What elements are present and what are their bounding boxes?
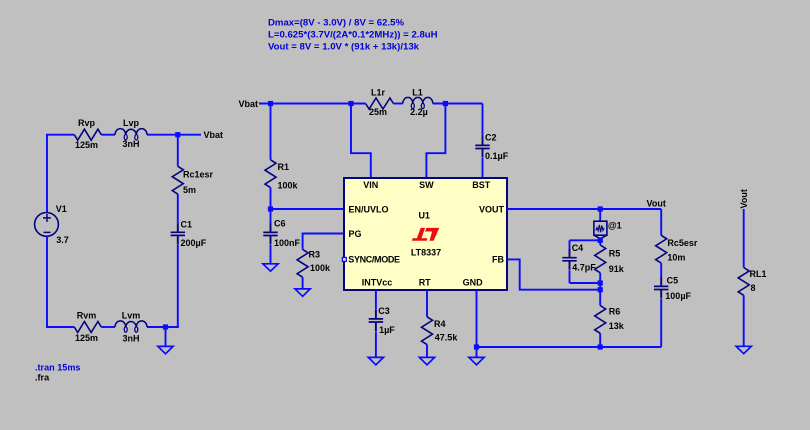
svg-text:V1: V1 (56, 204, 67, 214)
wire: PG net (303, 234, 344, 250)
wire: bottom return net (477, 346, 662, 348)
ground (left source return) (158, 327, 173, 354)
svg-text:Vout: Vout (647, 199, 666, 209)
svg-text:200µF: 200µF (181, 238, 207, 248)
wire: Vbat rail (259, 103, 483, 105)
junction: bottom rail / ground (163, 324, 168, 329)
svg-text:125m: 125m (75, 140, 98, 150)
resistor Rvp (74, 118, 101, 150)
resistor RL1 8 (738, 268, 766, 347)
resistor L1r 25m (inductor series R) (366, 87, 394, 117)
node Vout (flag) (647, 199, 666, 209)
svg-text:L1r: L1r (371, 87, 386, 97)
inductor L1 2.2u (403, 87, 433, 117)
svg-text:Lvp: Lvp (123, 118, 140, 128)
svg-text:100k: 100k (310, 263, 331, 273)
svg-text:C5: C5 (667, 276, 679, 286)
svg-text:LT8337: LT8337 (411, 247, 441, 257)
op-amp/IC U1 LT8337 body (344, 178, 507, 290)
svg-text:125m: 125m (75, 333, 98, 343)
resistor R4 47.5k (RT) (422, 290, 459, 357)
wire: V1 bottom to lower rail (46, 236, 48, 327)
svg-text:SYNC/MODE: SYNC/MODE (348, 255, 400, 265)
pin SYNC/MODE open terminal (342, 258, 346, 262)
junction: FB tee (598, 287, 603, 292)
svg-text:25m: 25m (369, 107, 387, 117)
wire: EN/UVLO net (271, 208, 345, 210)
svg-text:SW: SW (419, 180, 434, 190)
svg-text:Vbat: Vbat (204, 130, 224, 140)
svg-text:U1: U1 (418, 211, 430, 221)
svg-text:R4: R4 (434, 319, 446, 329)
svg-text:Rc1esr: Rc1esr (183, 170, 214, 180)
wire: left bottom rail (46, 326, 179, 328)
svg-text:91k: 91k (609, 264, 625, 274)
svg-text:Rvm: Rvm (77, 311, 97, 321)
svg-text:FB: FB (492, 255, 504, 265)
directive text: design equations (268, 17, 438, 52)
svg-text:3nH: 3nH (122, 139, 139, 149)
ground (load) (736, 346, 751, 353)
node Vbat (left flag) (204, 130, 224, 140)
wire: SW branch (426, 104, 445, 179)
resistor R5 91k (595, 240, 625, 305)
resistor Rvm (74, 311, 101, 343)
junction: VOUT / probe (598, 206, 603, 211)
ground (R3) (295, 289, 310, 296)
capacitor C1 200uF (171, 194, 207, 327)
svg-text:BST: BST (472, 180, 491, 190)
svg-text:47.5k: 47.5k (435, 332, 459, 342)
directive .tran 15ms (35, 363, 81, 373)
ground (R4) (419, 357, 434, 364)
svg-text:PG: PG (349, 229, 362, 239)
svg-text:L=0.625*(3.7V/(2A*0.1*2MHz)) =: L=0.625*(3.7V/(2A*0.1*2MHz)) = 2.8uH (268, 30, 438, 41)
svg-text:10m: 10m (667, 253, 685, 263)
svg-text:GND: GND (463, 278, 484, 288)
svg-text:RT: RT (419, 278, 431, 288)
svg-text:R5: R5 (609, 249, 621, 259)
junction: Vbat / Rc1esr branch (175, 132, 180, 137)
junction: rail / R1 (268, 101, 273, 106)
svg-text:Rvp: Rvp (78, 118, 96, 128)
ground (C6) (263, 264, 278, 271)
svg-text:3.7: 3.7 (56, 235, 69, 245)
wire: left vertical from rail to V1 (46, 135, 48, 213)
svg-text:INTVcc: INTVcc (362, 278, 393, 288)
inductor Lvp (115, 118, 147, 149)
inductor Lvm (115, 311, 147, 344)
resistor R6 13k (595, 306, 625, 348)
svg-text:3nH: 3nH (122, 333, 139, 343)
svg-text:100k: 100k (278, 181, 299, 191)
svg-text:C4: C4 (572, 243, 584, 253)
svg-text:VIN: VIN (363, 180, 378, 190)
wire: GND pin down (476, 290, 478, 357)
svg-text:Rc5esr: Rc5esr (667, 238, 698, 248)
svg-text:8: 8 (751, 283, 756, 293)
svg-text:Vout: Vout (739, 189, 749, 208)
wire: VOUT net (507, 208, 661, 210)
capacitor C6 100nF (263, 209, 300, 264)
svg-text:EN/UVLO: EN/UVLO (349, 204, 389, 214)
junction: rail / SW branch (443, 101, 448, 106)
svg-text:Dmax=(8V - 3.0V) / 8V = 62.5%: Dmax=(8V - 3.0V) / 8V = 62.5% (268, 17, 404, 28)
svg-text:100nF: 100nF (274, 238, 301, 248)
svg-text:L1: L1 (412, 87, 423, 97)
svg-text:R1: R1 (278, 162, 290, 172)
svg-text:C6: C6 (274, 219, 286, 229)
svg-text:2.2µ: 2.2µ (410, 107, 428, 117)
svg-text:Vbat: Vbat (239, 99, 259, 109)
svg-text:R6: R6 (609, 307, 621, 317)
ground (C3) (368, 357, 383, 364)
svg-text:5m: 5m (183, 185, 196, 195)
wire: FB net (507, 259, 600, 289)
svg-text:RL1: RL1 (750, 269, 767, 279)
junction: R6 bottom / return wire (598, 344, 603, 349)
IC logo LT (red) (412, 228, 439, 241)
svg-text:13k: 13k (609, 321, 625, 331)
resistor Rc5esr 10m (656, 209, 698, 263)
capacitor C3 1uF (INTVcc) (369, 290, 396, 357)
resistor Rc1esr (172, 135, 213, 195)
junction: probe bottom / C4 tee (598, 238, 603, 243)
wire: VIN branch (351, 104, 371, 179)
wire: left top rail Vbat (46, 134, 201, 136)
svg-text:Lvm: Lvm (122, 311, 141, 321)
voltage source V1 3.7 (35, 204, 69, 245)
ground (IC GND) (469, 357, 484, 364)
svg-text:R3: R3 (309, 250, 321, 260)
svg-text:1µF: 1µF (379, 325, 395, 335)
capacitor C4 4.7pF (562, 240, 600, 283)
wire: Vout load branch (743, 209, 745, 268)
node Vout (load flag, vertical) (739, 189, 749, 208)
svg-text:VOUT: VOUT (479, 205, 505, 215)
svg-text:C1: C1 (181, 220, 193, 230)
svg-text:.tran 15ms: .tran 15ms (35, 363, 81, 373)
svg-text:.fra: .fra (35, 373, 50, 383)
FRA probe @1 (594, 209, 622, 239)
svg-text:100µF: 100µF (665, 291, 691, 301)
node Vbat (middle flag) (239, 99, 259, 109)
capacitor C5 100uF (654, 263, 692, 347)
junction: rail / VIN branch (348, 101, 353, 106)
svg-text:@1: @1 (608, 221, 622, 231)
directive .fra (35, 373, 50, 383)
svg-text:Vout = 8V = 1.0V * (91k + 13k): Vout = 8V = 1.0V * (91k + 13k)/13k (268, 41, 420, 52)
svg-text:4.7pF: 4.7pF (572, 263, 596, 273)
junction: GND / bottom return wire (474, 344, 479, 349)
junction: EN net / C6 (268, 206, 273, 211)
svg-text:C3: C3 (378, 306, 390, 316)
svg-text:0.1µF: 0.1µF (485, 151, 509, 161)
resistor R1 100k (265, 104, 299, 210)
resistor R3 100k (297, 249, 331, 289)
svg-text:C2: C2 (485, 132, 497, 142)
capacitor C2 0.1uF (BST) (475, 104, 508, 179)
junction: C4 bottom tee (598, 280, 603, 285)
